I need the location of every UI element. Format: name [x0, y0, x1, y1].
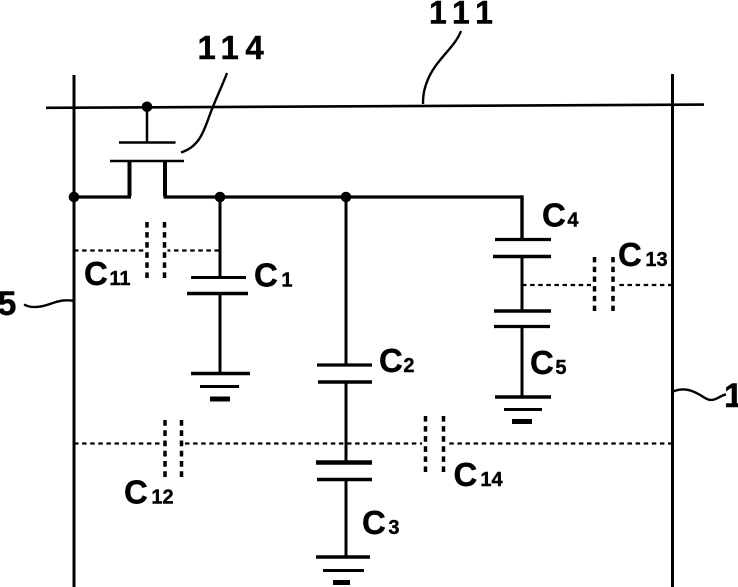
wire dashed bottom row right segment to right bus	[447, 442, 673, 444]
transistor 114 source leg	[128, 160, 132, 196]
svg-text:C3: C3	[362, 504, 399, 541]
wire row: left bus to source	[74, 195, 131, 198]
wire dashed bottom row middle segment	[185, 442, 422, 444]
ground below C5	[495, 397, 551, 422]
wire dashed bottom row left segment	[74, 442, 161, 444]
svg-text:C1: C1	[254, 257, 292, 294]
wire dashed row from C11 to C1 branch	[168, 249, 220, 251]
signal line 1 (right column bus)	[671, 74, 674, 587]
transistor 114 drain leg	[163, 160, 167, 196]
capacitor C2	[317, 365, 372, 382]
svg-text:1: 1	[724, 377, 738, 415]
capacitor C3	[316, 463, 372, 480]
wire C1 to ground	[219, 294, 222, 373]
wire C3 to ground	[345, 480, 348, 557]
svg-text:C11: C11	[84, 255, 131, 292]
svg-text:C5: C5	[530, 344, 566, 381]
wire dashed row C13 right segment to right bus	[617, 284, 673, 286]
ground below C3	[316, 557, 370, 583]
node gate junction dot	[142, 102, 153, 113]
capacitor C1	[187, 278, 248, 294]
transistor 114 channel bar	[110, 160, 184, 163]
transistor 114 gate lead	[146, 107, 149, 142]
capacitor C5	[494, 311, 551, 327]
svg-text:C12: C12	[124, 474, 174, 511]
svg-text:C4: C4	[542, 197, 579, 234]
node junction dot at left bus	[69, 192, 80, 203]
capacitor C14 (dashed)	[426, 416, 444, 472]
capacitor C11 (dashed)	[147, 222, 165, 278]
wire dashed row to C11 (left segment)	[74, 249, 144, 251]
svg-text:C13: C13	[618, 236, 668, 273]
wire dashed row C13 left segment	[522, 284, 591, 286]
leader squiggle for 1	[673, 389, 726, 400]
wire C1 branch vertical	[219, 197, 222, 277]
scan line 111 (top gate bus)	[46, 105, 704, 108]
wire C2 branch vertical	[345, 197, 348, 364]
capacitor C12 (dashed)	[165, 420, 182, 477]
wire C4 to C5	[521, 257, 524, 312]
leader squiggle for 111	[423, 31, 461, 104]
transistor 114 gate bar	[119, 141, 176, 144]
svg-text:111: 111	[429, 0, 500, 31]
wire row: drain to C4 branch	[164, 195, 523, 198]
capacitor C13 (dashed)	[595, 257, 614, 311]
svg-text:C2: C2	[379, 342, 414, 379]
wire C5 to ground	[521, 327, 524, 398]
svg-text:5: 5	[0, 285, 16, 323]
leader squiggle for 114	[181, 73, 227, 153]
node junction dot at C2 branch	[341, 192, 352, 203]
wire C2 to C3	[345, 382, 348, 462]
node junction dot at C1 branch	[215, 192, 226, 203]
svg-text:114: 114	[198, 29, 271, 66]
signal line 5 (left column bus)	[73, 75, 76, 587]
wire C4 branch corner	[520, 195, 523, 239]
ground below C1	[191, 374, 250, 400]
capacitor C4	[493, 240, 551, 257]
svg-text:C14: C14	[454, 456, 504, 493]
leader squiggle for 5	[24, 300, 74, 307]
